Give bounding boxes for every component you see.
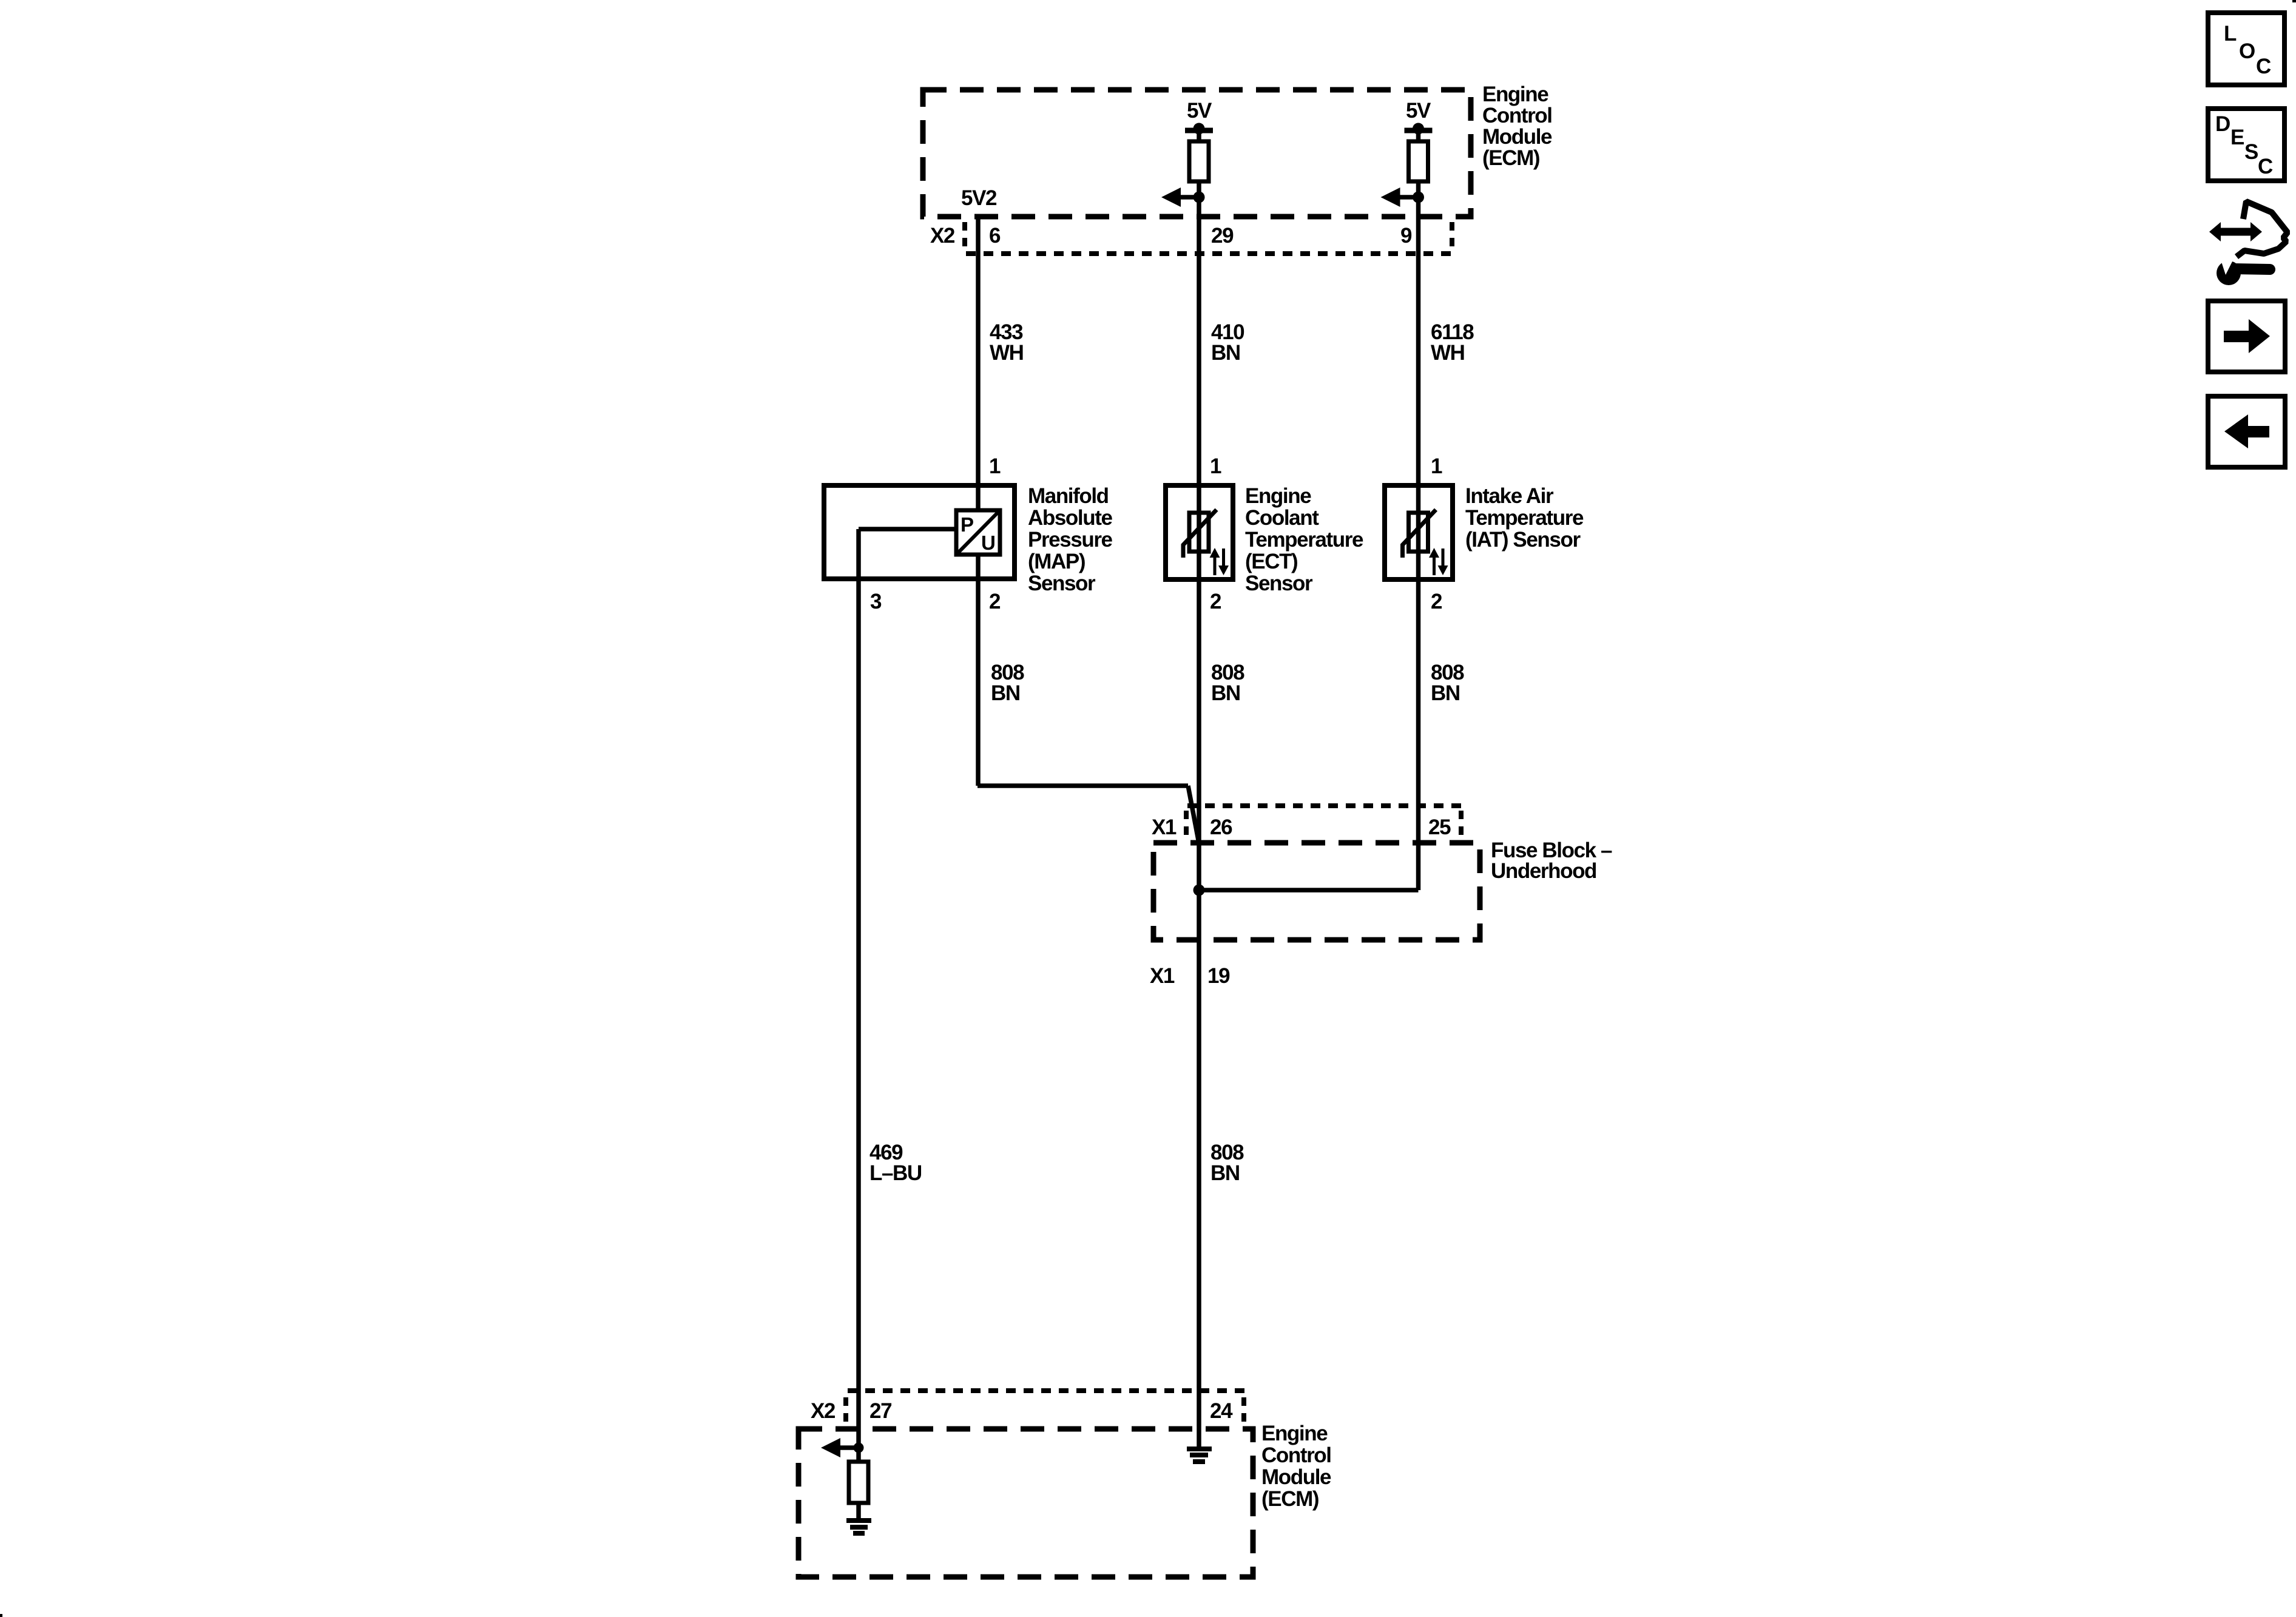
ECM module box (bottom, dashed) bbox=[799, 1429, 1253, 1577]
5V supply node (ECT feed) bbox=[1185, 99, 1213, 141]
ECM module box (top, dashed) bbox=[923, 90, 1471, 217]
svg-text:X1: X1 bbox=[1152, 815, 1177, 839]
svg-text:S: S bbox=[2244, 140, 2258, 164]
wire 469 L-BU from MAP pin 3 to ECM X2-27 bbox=[856, 529, 861, 1448]
svg-text:1: 1 bbox=[1210, 454, 1221, 478]
svg-text:WH: WH bbox=[1431, 341, 1465, 365]
icon wrench / connector test bbox=[2209, 201, 2288, 285]
connector X1 row (fuse block top) bbox=[1186, 806, 1464, 839]
page corner mark bottom-left bbox=[0, 1614, 2, 1617]
svg-text:(IAT) Sensor: (IAT) Sensor bbox=[1465, 528, 1581, 552]
svg-text:26: 26 bbox=[1210, 815, 1232, 839]
svg-text:C: C bbox=[2256, 55, 2271, 78]
svg-text:Sensor: Sensor bbox=[1028, 572, 1096, 595]
wire resistor to ground bbox=[856, 1503, 861, 1519]
page corner mark top-right bbox=[2292, 0, 2296, 2]
svg-text:Control: Control bbox=[1482, 104, 1552, 127]
node dot on 469 L-BU bbox=[854, 1443, 864, 1453]
wire 808 BN from ECT pin 2 to fuse block junction bbox=[1197, 552, 1201, 890]
icon DESC box bbox=[2208, 109, 2284, 181]
svg-text:29: 29 bbox=[1211, 224, 1234, 248]
Fuse Block label bbox=[1491, 839, 1612, 883]
ECT sensor label bbox=[1245, 484, 1363, 595]
svg-text:Intake Air: Intake Air bbox=[1465, 484, 1554, 508]
wire label 6118 WH bbox=[1431, 320, 1474, 365]
ECT sensor box bbox=[1166, 485, 1233, 579]
svg-text:L: L bbox=[2224, 22, 2237, 46]
svg-text:1: 1 bbox=[1431, 454, 1442, 478]
ECM label (top) bbox=[1482, 83, 1552, 170]
svg-text:D: D bbox=[2215, 112, 2230, 136]
wire 410 BN from ECM X2-29 through ECT sensor bbox=[1197, 181, 1201, 513]
resistor (ECM internal, MAP signal) bbox=[849, 1462, 868, 1503]
ECT variability arrows bbox=[1210, 548, 1229, 575]
wire label 808 BN (IAT) bbox=[1431, 661, 1464, 705]
svg-text:Engine: Engine bbox=[1245, 484, 1311, 508]
ground (ECM internal, MAP) bbox=[846, 1521, 871, 1533]
wire node to resistor (MAP signal) bbox=[856, 1448, 861, 1463]
svg-text:BN: BN bbox=[1211, 341, 1240, 365]
MAP transducer symbol P/U bbox=[956, 510, 1000, 555]
wire label 808 BN (ECT) bbox=[1211, 661, 1244, 705]
svg-text:Temperature: Temperature bbox=[1465, 506, 1584, 530]
svg-text:Coolant: Coolant bbox=[1245, 506, 1319, 530]
wire 6118 WH from ECM X2-9 through IAT sensor bbox=[1416, 181, 1421, 513]
wire label 410 BN bbox=[1211, 320, 1244, 365]
IAT variability arrows bbox=[1429, 548, 1448, 575]
svg-text:BN: BN bbox=[991, 681, 1020, 705]
svg-text:6: 6 bbox=[989, 224, 1001, 248]
wire 433 WH from ECM X2-6 to MAP pin 1 bbox=[976, 217, 981, 510]
svg-text:2: 2 bbox=[1210, 590, 1221, 613]
svg-text:19: 19 bbox=[1207, 964, 1230, 988]
icon back arrow box bbox=[2208, 396, 2285, 467]
connector X2 row (top) bbox=[965, 222, 1454, 254]
svg-text:Engine: Engine bbox=[1482, 83, 1548, 106]
junction dot 808 BN bbox=[1194, 885, 1205, 896]
svg-text:24: 24 bbox=[1210, 1399, 1233, 1423]
icon LOC box bbox=[2208, 13, 2284, 85]
svg-text:3: 3 bbox=[870, 590, 882, 613]
node dot on 6118 WH bbox=[1413, 192, 1424, 203]
svg-text:E: E bbox=[2230, 126, 2244, 149]
svg-text:2: 2 bbox=[1431, 590, 1442, 613]
IAT thermistor symbol bbox=[1403, 510, 1436, 558]
resistor (ECM internal pull-up, ECT) bbox=[1189, 141, 1209, 181]
wire label 808 BN (lower) bbox=[1210, 1141, 1244, 1185]
svg-text:5V: 5V bbox=[1187, 99, 1212, 123]
svg-text:BN: BN bbox=[1431, 681, 1460, 705]
ECT thermistor symbol bbox=[1183, 510, 1217, 558]
svg-text:X2: X2 bbox=[811, 1399, 836, 1423]
svg-text:L–BU: L–BU bbox=[869, 1161, 922, 1185]
svg-text:Underhood: Underhood bbox=[1491, 859, 1596, 883]
svg-text:(MAP): (MAP) bbox=[1028, 550, 1085, 573]
svg-text:WH: WH bbox=[990, 341, 1024, 365]
IAT sensor label bbox=[1465, 484, 1584, 552]
svg-text:Pressure: Pressure bbox=[1028, 528, 1113, 552]
svg-text:U: U bbox=[981, 532, 995, 554]
svg-text:27: 27 bbox=[869, 1399, 891, 1423]
resistor (ECM internal pull-up, IAT) bbox=[1409, 141, 1428, 181]
signal arrow (ECT input) bbox=[1161, 187, 1199, 207]
svg-text:BN: BN bbox=[1210, 1161, 1240, 1185]
MAP sensor box bbox=[824, 485, 1015, 579]
svg-text:Temperature: Temperature bbox=[1245, 528, 1363, 552]
svg-text:25: 25 bbox=[1428, 815, 1451, 839]
ground (ECM internal, pin 24) bbox=[1187, 1449, 1212, 1462]
svg-text:Module: Module bbox=[1482, 125, 1552, 149]
node dot on 410 BN bbox=[1194, 192, 1205, 203]
wire MAP pin 2 internal to 808 BN bbox=[976, 555, 981, 786]
svg-text:Control: Control bbox=[1261, 1443, 1331, 1467]
wire label 808 BN (MAP) bbox=[991, 661, 1024, 705]
wire 808 BN diagonal jog into X1-26 bbox=[1188, 786, 1199, 843]
wire 808 BN horizontal inside fuse block bbox=[1199, 888, 1419, 893]
IAT sensor box bbox=[1385, 485, 1453, 579]
wire label 433 WH bbox=[990, 320, 1024, 365]
svg-text:BN: BN bbox=[1211, 681, 1240, 705]
svg-text:1: 1 bbox=[989, 454, 1001, 478]
MAP sensor label bbox=[1028, 484, 1113, 595]
connector X2 row (bottom ECM) bbox=[846, 1391, 1246, 1423]
svg-text:Absolute: Absolute bbox=[1028, 506, 1112, 530]
signal arrow (IAT input) bbox=[1381, 187, 1419, 207]
svg-text:X1: X1 bbox=[1150, 964, 1175, 988]
svg-text:Sensor: Sensor bbox=[1245, 572, 1313, 595]
svg-text:X2: X2 bbox=[930, 224, 955, 248]
svg-text:5V2: 5V2 bbox=[961, 186, 997, 210]
wire MAP pin 3 horizontal tap bbox=[859, 527, 956, 532]
wire 808 BN from junction to ECM X2-24 ground bbox=[1197, 890, 1201, 1448]
svg-text:2: 2 bbox=[989, 590, 1001, 613]
svg-text:C: C bbox=[2258, 155, 2273, 178]
svg-text:Manifold: Manifold bbox=[1028, 484, 1109, 508]
svg-text:P: P bbox=[961, 513, 973, 536]
svg-text:(ECM): (ECM) bbox=[1261, 1487, 1319, 1511]
svg-text:Engine: Engine bbox=[1261, 1422, 1328, 1445]
5V supply node (IAT feed) bbox=[1405, 99, 1433, 141]
svg-text:(ECM): (ECM) bbox=[1482, 146, 1539, 170]
ECM label (bottom) bbox=[1261, 1422, 1331, 1511]
svg-text:9: 9 bbox=[1400, 224, 1412, 248]
Fuse Block - Underhood box (dashed) bbox=[1153, 843, 1480, 940]
svg-text:5V: 5V bbox=[1406, 99, 1431, 123]
signal arrow (MAP signal input) bbox=[821, 1438, 859, 1457]
wire 808 BN from IAT pin 2 into fuse block X1-25 bbox=[1416, 552, 1421, 890]
svg-text:(ECT): (ECT) bbox=[1245, 550, 1297, 573]
svg-text:Module: Module bbox=[1261, 1465, 1331, 1489]
svg-text:O: O bbox=[2239, 39, 2255, 63]
wire 808 BN horizontal from MAP pin 2 bbox=[977, 783, 1188, 788]
icon forward arrow box bbox=[2208, 301, 2285, 372]
wire label 469 L-BU bbox=[869, 1141, 922, 1185]
